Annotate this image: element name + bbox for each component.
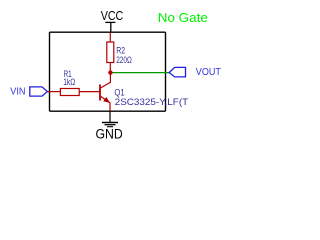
power symbol VCC [105, 22, 115, 32]
wire: collector node to VOUT (green net) [110, 72, 169, 74]
wire: left side [49, 32, 51, 111]
svg-text:1kΩ: 1kΩ [63, 77, 75, 88]
wire: right side [165, 32, 167, 111]
svg-text:No Gate: No Gate [158, 11, 208, 25]
svg-text:GND: GND [96, 126, 124, 141]
ground symbol GND [102, 111, 118, 126]
port VIN [30, 87, 48, 96]
wire: VCC rail to R2 [109, 32, 111, 42]
svg-text:VOUT: VOUT [196, 67, 221, 78]
svg-text:220Ω: 220Ω [116, 55, 132, 66]
svg-text:2SC3325-Y,LF(T: 2SC3325-Y,LF(T [115, 97, 189, 108]
node: collector junction dot [108, 70, 112, 74]
resistor R1 [60, 89, 79, 96]
wire: R2 to collector node [109, 63, 111, 73]
wire: bottom GND rail [50, 110, 166, 112]
resistor R2 [107, 42, 114, 63]
transistor Q1 (NPN) [100, 73, 110, 112]
svg-text:VIN: VIN [10, 87, 25, 98]
svg-text:VCC: VCC [101, 8, 124, 23]
wire: top VCC rail [50, 31, 166, 33]
wire: R1 to base of Q1 [79, 91, 100, 93]
wire: VIN to R1 [47, 91, 60, 93]
port VOUT [169, 67, 185, 77]
